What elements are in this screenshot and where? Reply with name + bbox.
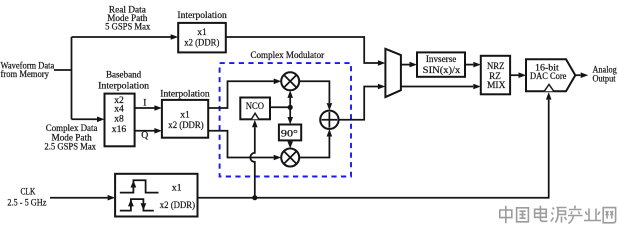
svg-text:Output: Output [592, 74, 615, 85]
svg-text:2.5 - 5 GHz: 2.5 - 5 GHz [7, 198, 46, 209]
wire: NRZ RZ MIX to DAC core [510, 72, 526, 78]
char 国 [517, 208, 529, 222]
char 网 [603, 208, 615, 223]
wire: mux bottom output to NRZ RZ MIX [401, 84, 481, 90]
svg-text:x1: x1 [180, 110, 190, 121]
char 中 [500, 206, 512, 224]
svg-text:x1: x1 [172, 182, 182, 193]
adder A1 (summer) [320, 111, 338, 129]
16-bit DAC core block [526, 59, 575, 91]
svg-text:x8: x8 [114, 114, 124, 125]
svg-text:90°: 90° [281, 128, 298, 139]
wire: Q path baseband to interpolation U3 [135, 128, 162, 141]
svg-text:Interpolation: Interpolation [160, 89, 210, 100]
svg-text:x2 (DDR): x2 (DDR) [160, 200, 195, 211]
wire: clock distribution to DAC core [198, 92, 552, 198]
wire: I path baseband to interpolation U3 [135, 98, 162, 111]
junction node on clock line [252, 195, 257, 200]
mixer M1 (top multiplier) [281, 72, 299, 90]
clock waveform x1 [120, 180, 159, 192]
svg-text:Invserse: Invserse [426, 54, 456, 65]
svg-text:CLK: CLK [20, 186, 35, 197]
wire: main branch vertical [71, 37, 73, 119]
svg-text:NCO: NCO [246, 101, 264, 112]
char 电 [535, 206, 548, 222]
char 源 [551, 208, 567, 223]
wire: adder output to mux [339, 84, 386, 120]
wire: NCO output up to mixer M1 [287, 90, 293, 107]
inverse sinc block (Invserse SIN(x)/x) [417, 52, 465, 76]
svg-text:from Memory: from Memory [1, 69, 50, 80]
interpolation block U1 (real path x1 x2 DDR) [177, 10, 227, 52]
clock waveform x2 DDR [120, 199, 154, 211]
svg-text:DAC Core: DAC Core [530, 71, 566, 82]
svg-text:Q: Q [141, 130, 148, 141]
svg-text:I: I [143, 98, 146, 109]
svg-text:Interpolation: Interpolation [98, 80, 149, 91]
svg-text:MIX: MIX [487, 80, 506, 91]
svg-text:2.5 GSPS Max: 2.5 GSPS Max [44, 142, 96, 153]
wire: input from memory [54, 69, 72, 71]
char 产 [568, 206, 583, 224]
wire: DAC output [575, 72, 588, 78]
wire: 90 deg to mixer M2 [287, 140, 293, 148]
clock divider block (x1 / x2 DDR edges) [115, 174, 197, 217]
NCO clock wedge [251, 113, 258, 119]
mux (path selector) [385, 49, 401, 97]
junction node on NCO output [288, 105, 293, 110]
svg-text:5 GSPS Max: 5 GSPS Max [105, 22, 150, 33]
node label: Real Data Mode Path 5 GSPS Max [105, 5, 150, 33]
wire: mixer M2 to adder [299, 129, 332, 158]
wire: CLK input to clock block [50, 195, 115, 201]
NCO block [240, 98, 270, 120]
svg-text:Interpolation: Interpolation [177, 10, 227, 21]
node: CLK 2.5 - 5 GHz [7, 186, 46, 208]
mixer M2 (bottom multiplier) [281, 149, 299, 167]
wire: mux top output to inverse sinc [401, 62, 417, 68]
node: Waveform Data from Memory [1, 60, 55, 80]
svg-text:Complex Modulator: Complex Modulator [251, 50, 325, 61]
wire: interpolation U1 output to mux [226, 37, 378, 63]
wire: inverse sinc output to NRZ RZ MIX [465, 62, 481, 68]
node label: Complex Data Mode Path 2.5 GSPS Max [44, 123, 98, 152]
svg-text:x2 (DDR): x2 (DDR) [168, 120, 203, 131]
wire: real data path to interpolation [72, 34, 179, 40]
DAC clock wedge [544, 84, 553, 91]
svg-text:SIN(x)/x: SIN(x)/x [423, 65, 461, 76]
wire: NCO output [270, 106, 290, 108]
wire: Q into complex modulator to mixer M2 [208, 131, 281, 161]
NRZ RZ MIX block [481, 56, 510, 95]
watermark: 中国电源产业网 [500, 206, 616, 224]
char 业 [584, 209, 601, 221]
wire: branch to baseband interpolation [72, 117, 105, 123]
interpolation block U3 (complex path x1 x2 DDR) [160, 89, 210, 138]
wire: mixer M1 to adder [299, 81, 332, 110]
wire: NCO output down to 90 deg block [287, 107, 293, 124]
complex modulator dashed boundary box [220, 50, 351, 177]
baseband interpolation block U2 (x2 x4 x8 x16) [98, 70, 149, 147]
wire: clock branch up to NCO with hop over Q wire [250, 120, 257, 198]
node: Analog Output [592, 65, 616, 85]
90 degree phase shift block [279, 125, 301, 141]
svg-text:x16: x16 [112, 124, 127, 135]
svg-text:Baseband: Baseband [106, 70, 141, 81]
wire: I into complex modulator to mixer M1 [208, 79, 281, 109]
svg-text:x2 (DDR): x2 (DDR) [184, 37, 219, 48]
